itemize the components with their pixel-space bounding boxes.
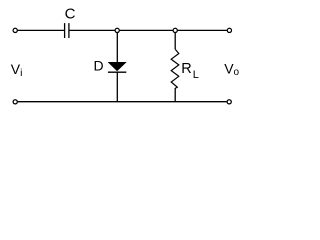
svg-text:D: D <box>94 58 104 74</box>
wire: capacitor right plate to node A <box>70 29 116 31</box>
terminal: output bottom <box>227 100 231 104</box>
node A (diode branch junction) <box>115 28 119 32</box>
diode D triangle (anode) <box>108 62 127 71</box>
wire: node A to node B <box>119 29 173 31</box>
node B (resistor branch junction) <box>173 28 177 32</box>
wire: diode cathode down to bottom rail <box>116 72 118 102</box>
wire: bottom rail <box>18 101 227 103</box>
wire: top rail, input terminal to capacitor left plate <box>17 29 64 31</box>
capacitor C plates <box>64 23 66 38</box>
diode D cathode bar <box>108 71 126 73</box>
wire: node B down to resistor top <box>174 33 176 50</box>
resistor RL zigzag <box>171 49 179 88</box>
terminal: output top <box>227 28 231 32</box>
svg-text:C: C <box>65 6 76 23</box>
wire: node B to output terminal <box>177 29 227 31</box>
terminal: input top <box>13 28 17 32</box>
wire: resistor bottom to bottom rail <box>174 88 176 102</box>
wire: node A down to diode anode <box>116 33 118 63</box>
terminal: input bottom <box>13 100 17 104</box>
